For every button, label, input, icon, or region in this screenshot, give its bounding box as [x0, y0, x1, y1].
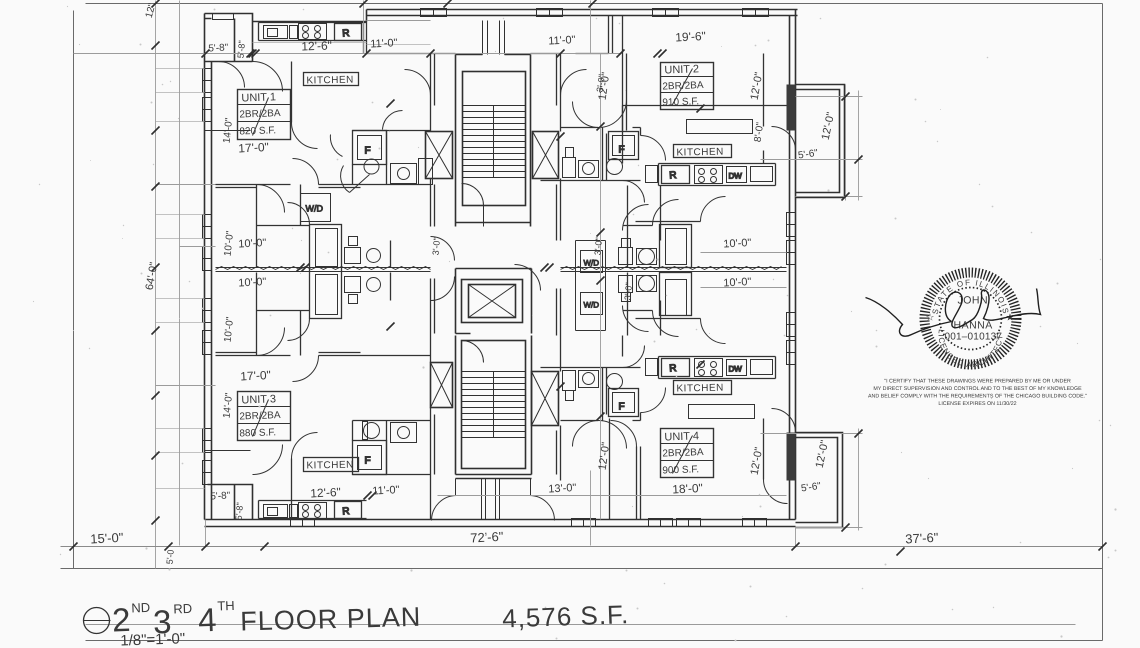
svg-text:3'-0": 3'-0": [593, 237, 605, 256]
demising zigzag left: [216, 268, 431, 272]
svg-text:11'-0": 11'-0": [372, 484, 400, 497]
door arc entry right: [530, 496, 555, 521]
svg-text:11'-0": 11'-0": [370, 37, 398, 50]
kitchen4 label: [674, 381, 732, 395]
shaft X mid-left: [431, 363, 453, 408]
door arc closet lower: [288, 319, 310, 341]
signature main loops: [945, 289, 1040, 328]
window midlines: [203, 9, 796, 527]
svg-text:KITCHEN: KITCHEN: [306, 75, 354, 87]
svg-text:4: 4: [197, 601, 217, 639]
door arc right bedroom upper: [701, 197, 726, 222]
dim guide vertical x590: [590, 1, 592, 546]
bath top-left tub: [419, 159, 433, 185]
window: bottom wall w3: [649, 519, 673, 527]
door arc unit1 bedroom: [292, 123, 318, 149]
dim guide top corridor ticks line y20: [367, 20, 431, 22]
window: left wall w3: [203, 215, 212, 239]
window: right wall w2: [787, 241, 796, 265]
bath cluster bottom-center walls: [541, 368, 641, 421]
wall: right thick pier top: [787, 85, 796, 131]
balcony: lower right: [796, 433, 843, 528]
bath cluster bottom-left F closet: [353, 441, 387, 475]
door arc balcony top: [772, 127, 796, 151]
wall: building bottom (double): [205, 520, 796, 527]
elevator cab inner X: [469, 285, 516, 318]
dim guide vertical x600 full: [600, 54, 602, 520]
wall right unit kitchen top: [623, 106, 659, 186]
kitchen3 label: [304, 458, 359, 472]
shaft X mid-right: [532, 372, 559, 426]
kitchen2 label: [674, 145, 732, 159]
wall right units x660 vertical: [660, 186, 662, 336]
dim guide vertical x860: [858, 91, 860, 531]
svg-text:UNIT 3: UNIT 3: [241, 393, 276, 406]
kitchen1 fridge R: [335, 24, 362, 41]
wall right unit4 y300: [623, 310, 653, 312]
door arc stair top core: [462, 184, 484, 227]
window: right wall w4: [787, 341, 796, 365]
unit4 text: [662, 430, 704, 476]
wall unit1 hall y130: [205, 130, 251, 132]
svg-text:UNIT 1: UNIT 1: [241, 91, 276, 104]
svg-text:KITCHEN: KITCHEN: [676, 147, 724, 159]
bath cluster top-center walls: [541, 128, 641, 181]
sheet right border: [1102, 4, 1104, 641]
svg-text:KITCHEN: KITCHEN: [306, 460, 354, 472]
window: left wall w8: [203, 461, 212, 485]
seal curved text top: [931, 278, 1011, 369]
kitchen4 counter band right: [659, 357, 776, 379]
svg-text:☆: ☆: [926, 313, 935, 324]
svg-text:2BR/2BA: 2BR/2BA: [239, 108, 281, 120]
svg-text:900 S.F.: 900 S.F.: [662, 464, 699, 476]
kitchen4 sink: [751, 360, 773, 375]
sheet top border: [86, 3, 1103, 5]
svg-text:4,576 S.F.: 4,576 S.F.: [502, 599, 630, 633]
door arc bottom-left bedroom: [253, 445, 283, 475]
wall right unit partition x622: [623, 16, 627, 131]
bath cluster top-left toilet: [341, 159, 379, 193]
wall: right thick pier bottom: [787, 433, 796, 481]
kitchen1 label: [304, 73, 359, 87]
svg-text:MY DIRECT SUPERVISION AND CONT: MY DIRECT SUPERVISION AND CONTROL AND TO…: [873, 386, 1082, 392]
svg-text:"I CERTIFY THAT THESE DRAWINGS: "I CERTIFY THAT THESE DRAWINGS WERE PREP…: [884, 379, 1071, 385]
svg-text:15'-0": 15'-0": [90, 530, 124, 547]
door arc unit3 bedroom: [292, 433, 318, 459]
kitchen1 trash box: [290, 26, 298, 39]
svg-text:11'-0": 11'-0": [548, 34, 576, 47]
door arc bath top-left entry: [330, 110, 402, 156]
stair door top corridor: [483, 21, 505, 55]
window: left wall w7: [203, 429, 212, 453]
window: bottom wall w4: [677, 519, 701, 527]
door arc right unit2 entry: [623, 205, 649, 231]
svg-text:10'-0": 10'-0": [238, 237, 267, 250]
door arc unit4 balcony corner: [764, 480, 788, 504]
stair core top: inner cage: [463, 72, 526, 206]
svg-text:F: F: [365, 456, 371, 467]
door arc corridor top right: [561, 70, 587, 96]
kitchen4 range burners: [695, 359, 723, 377]
wall left unit bedroom y184: [216, 185, 431, 188]
svg-text:001–010137: 001–010137: [945, 332, 1003, 343]
tick marks x155 column: [152, 42, 160, 525]
window: left wall w2: [203, 98, 212, 122]
unit2 text: [662, 63, 704, 108]
kitchen1 counter band: [259, 23, 367, 41]
bath top-center toilet tank: [563, 148, 576, 178]
door arc right bedroom lower: [701, 319, 726, 344]
title text floor plan: [111, 598, 629, 648]
svg-text:5'-8": 5'-8": [208, 42, 229, 54]
svg-text:RD: RD: [173, 601, 192, 617]
demising zigzag left texture: [216, 267, 431, 270]
unit4 label box: [661, 429, 714, 478]
svg-text:18'-0": 18'-0": [672, 481, 703, 497]
door arc left unit hall: [293, 159, 319, 185]
bath bottom-center door arcs: [573, 346, 666, 449]
window: corner room top: [213, 14, 234, 20]
bath bottom-center sink counter: [579, 371, 599, 388]
dim guide vertical x179: [179, 1, 181, 546]
wall bath top-left: [353, 131, 431, 185]
unit2 label box: [661, 63, 714, 110]
window: top wall w1: [421, 9, 447, 17]
stair center rail bottom: [493, 372, 495, 438]
washer dryer center upper: [581, 251, 603, 273]
door arc corner room: [219, 62, 245, 88]
seal dotted inner circle: [940, 288, 1002, 350]
wall right bedroom y318: [636, 318, 701, 320]
wall bath bottom-left: [353, 421, 431, 475]
wall unit3 hall y450: [205, 450, 251, 452]
wall: building right (double): [790, 10, 796, 520]
svg-text:5'-8": 5'-8": [236, 40, 248, 59]
washer dryer left unit: [301, 194, 331, 222]
dim guide vertical x155: [155, 1, 157, 569]
window: top wall w4: [743, 9, 769, 17]
svg-text:880 S.F.: 880 S.F.: [239, 427, 276, 439]
unit1 text: [239, 91, 281, 137]
svg-text:UNIT 2: UNIT 2: [664, 63, 699, 76]
lobby arcs center left: [431, 237, 455, 301]
bath bottom-left sink: [391, 423, 417, 443]
kitchen3 sink inner: [268, 508, 278, 516]
sheet left border: [73, 11, 75, 569]
wall unit2 bedroom x763: [763, 54, 765, 164]
kitchen4 island: [689, 405, 755, 419]
guide lines left margin: [156, 69, 205, 489]
svg-text:17'-0": 17'-0": [240, 368, 271, 384]
wall unit3 bedroom partition: [291, 459, 293, 520]
bath bottom-center toilet bowl: [607, 374, 623, 390]
kitchen2 cabinet: [646, 166, 658, 183]
svg-text:R: R: [342, 28, 350, 39]
wall right unit2 partition low: [623, 105, 787, 107]
stair treads bottom: [462, 372, 526, 438]
kitchen1 sink inner: [268, 29, 278, 37]
kitchen1 range burners: [299, 24, 327, 40]
door arc left bedroom mid lower: [257, 328, 285, 356]
kitchen2 fridge R: [662, 166, 690, 184]
wall top corridor y53: [367, 53, 609, 55]
svg-text:DW: DW: [729, 172, 743, 181]
svg-text:17'-0": 17'-0": [238, 140, 269, 156]
kitchen3 counter band: [259, 501, 367, 519]
wall unit1 bedroom partition: [291, 62, 293, 123]
wall left unit bedroom y355: [216, 353, 431, 356]
svg-text:12'-6": 12'-6": [310, 485, 341, 501]
svg-text:910 S.F.: 910 S.F.: [662, 96, 699, 108]
bath top-center door arcs: [573, 100, 666, 203]
svg-text:TH: TH: [217, 598, 235, 614]
dim guide y495 bottom units: [438, 495, 787, 497]
svg-text:2BR/2BA: 2BR/2BA: [662, 80, 704, 92]
wall right unit4 partition: [610, 419, 641, 520]
title drawing number circle: [84, 608, 110, 634]
wall left closet row upper: [257, 185, 310, 268]
window: right wall w1: [787, 213, 796, 237]
wall: top-left kitchen bump top: [253, 10, 367, 22]
kitchen1 sink cabinet: [264, 26, 288, 39]
tick marks y546 row: [70, 543, 1107, 551]
wall right unit partition x608: [609, 16, 613, 54]
svg-text:1/8"=1'-0": 1/8"=1'-0": [120, 630, 185, 648]
title underline: [86, 624, 1076, 626]
dim guide vertical x363 top: [363, 1, 365, 54]
elevator core walls: [456, 269, 532, 334]
wall right units x627 vertical: [627, 186, 629, 336]
bath bottom-center toilet tank: [563, 371, 576, 401]
bath bottom-center F closet: [609, 389, 639, 417]
window: bottom wall w1: [291, 519, 315, 527]
demising zigzag right: [561, 268, 787, 272]
door arc balcony bottom: [772, 409, 796, 433]
guide lines top margin: [253, 43, 431, 45]
svg-text:3'-0": 3'-0": [623, 282, 635, 301]
svg-text:12'-6": 12'-6": [301, 38, 332, 53]
fixtures right mid lower row: [619, 276, 657, 302]
wall corridor left lower: [431, 279, 435, 520]
kitchen2 sink: [751, 167, 773, 182]
shaft X top-right: [533, 132, 559, 179]
balcony: upper right: [796, 85, 845, 198]
sheet line above title: [61, 568, 1103, 570]
entry vestibule below stair: [456, 479, 531, 520]
dim guide horizontal y246 left: [180, 246, 216, 248]
tick marks balcony right: [842, 93, 863, 532]
door arc top-left bedroom1: [253, 62, 283, 92]
wall: building top (double): [367, 10, 798, 16]
signature tail left: [866, 298, 952, 337]
svg-text:F: F: [619, 402, 625, 413]
svg-text:19'-6": 19'-6": [675, 29, 706, 45]
svg-text:2BR/2BA: 2BR/2BA: [662, 447, 704, 459]
svg-text:5'-8": 5'-8": [210, 490, 231, 502]
bath top-center F closet: [609, 132, 639, 160]
certification text: [868, 379, 1087, 408]
svg-text:R: R: [342, 506, 350, 517]
svg-text:5'-0: 5'-0: [165, 549, 176, 565]
closet column right upper: [660, 225, 692, 268]
svg-text:AND BELIEF COMPLY WITH THE REQ: AND BELIEF COMPLY WITH THE REQUIREMENTS …: [868, 394, 1087, 400]
kitchen2 range burners: [695, 166, 723, 184]
svg-text:5'-8": 5'-8": [234, 502, 246, 521]
wall kitchen1 right edge: [364, 22, 367, 54]
wall right unit4 kitchen: [623, 336, 659, 379]
stair treads top: [463, 106, 526, 178]
svg-text:UNIT 4: UNIT 4: [664, 430, 699, 443]
svg-text:37'-6": 37'-6": [905, 530, 939, 547]
kitchen4 fridge R: [662, 359, 690, 377]
svg-text:R: R: [669, 170, 677, 181]
closet column right lower: [660, 273, 692, 316]
kitchen2 counter band right: [659, 164, 776, 186]
tick marks top border: [152, 0, 597, 8]
svg-text:F: F: [365, 146, 371, 157]
dim guide horizontal y433 balcony: [761, 433, 863, 435]
svg-text:DW: DW: [729, 365, 743, 374]
bath cluster top-left F closet: [353, 131, 387, 165]
wall: top-left corner room: [205, 14, 253, 62]
svg-text:ND: ND: [131, 600, 150, 616]
wall corridor left upper: [431, 54, 435, 227]
dim guide horizontal y159 balcony: [761, 159, 863, 161]
tick marks center vertical x600: [597, 123, 605, 421]
kitchen4 DW: [727, 360, 747, 376]
svg-text:KITCHEN: KITCHEN: [676, 383, 724, 395]
wall center laundry: [576, 241, 606, 331]
svg-text:W/D: W/D: [584, 301, 600, 310]
tick marks double hashes: [247, 50, 905, 556]
window: bottom wall w5: [743, 519, 767, 527]
tick marks y53 row: [202, 50, 625, 58]
svg-text:10'-0": 10'-0": [723, 237, 752, 250]
wall right bedroom y221: [636, 221, 701, 223]
door arc unit3 bedroom2: [515, 265, 541, 291]
dim guide vertical x795 below: [795, 528, 797, 547]
svg-text:10'-0": 10'-0": [723, 276, 752, 289]
bath top-center toilet bowl: [607, 159, 623, 175]
kitchen2 island: [687, 120, 753, 134]
stair core top: walls: [456, 55, 531, 227]
door arc corridor top left: [405, 70, 431, 96]
door arc unit4 bedroom: [653, 311, 679, 337]
wall unit4 bedroom x763: [763, 419, 765, 480]
wall: bottom-left corner room: [208, 485, 253, 520]
svg-text:820 S.F.: 820 S.F.: [239, 125, 276, 137]
window: left wall w5: [203, 299, 212, 323]
door arc left bedroom mid upper: [257, 185, 285, 213]
dim guide horizontal y184 ext: [156, 184, 216, 186]
seal hatched outer ring: [925, 273, 1017, 365]
kitchen3 range burners: [299, 503, 327, 519]
svg-text:FLOOR PLAN: FLOOR PLAN: [240, 602, 422, 637]
sheet bottom border: [86, 640, 1103, 642]
unit3 text: [239, 393, 281, 439]
stair core bottom: walls: [456, 336, 532, 479]
door arc unit2 bedroom: [653, 200, 679, 226]
window: right wall w3: [787, 313, 796, 337]
door arc closet upper: [288, 203, 310, 225]
bath top-left sink counter: [391, 164, 417, 184]
wall left closet row lower: [257, 273, 310, 356]
elevator cab: [462, 280, 523, 323]
dim guide y287 right: [701, 287, 787, 289]
wall: building left (double): [205, 14, 212, 520]
kitchen3 sink cabinet: [264, 505, 288, 518]
dim guide vertical x205 below: [205, 520, 207, 547]
window: left wall w4: [203, 247, 212, 271]
bath top-center sink counter: [579, 161, 599, 178]
svg-text:72'-6": 72'-6": [470, 529, 504, 546]
shaft X top-left: [426, 132, 453, 179]
door arc right unit4 entry: [623, 306, 649, 332]
wall corridor right lower: [557, 289, 561, 481]
dim guide vertical x845 top: [845, 85, 847, 201]
window: top wall w2: [537, 9, 563, 17]
svg-text:LICENSE EXPIRES ON 11/30/22: LICENSE EXPIRES ON 11/30/22: [938, 401, 1016, 407]
svg-text:W/D: W/D: [584, 259, 600, 268]
stair center rail top: [493, 106, 495, 178]
svg-text:R: R: [669, 363, 677, 374]
closet column back-to-back: [310, 225, 342, 319]
dim line bottom y546: [61, 546, 1103, 548]
stair door arc bottom core: [462, 341, 484, 363]
fixtures right mid upper row: [619, 239, 657, 265]
tick marks misc interior: [387, 100, 705, 391]
window: left wall w1: [203, 69, 212, 93]
door arc left unit hall2: [293, 356, 319, 382]
svg-text:10'-0": 10'-0": [238, 276, 267, 289]
kitchen4 cabinet: [646, 359, 658, 376]
dim guide horizontal y53: [74, 53, 621, 55]
svg-text:2BR/2BA: 2BR/2BA: [239, 410, 281, 422]
wall corridor right upper: [557, 54, 561, 241]
window: left wall w6: [203, 331, 212, 355]
svg-text:HANNA: HANNA: [954, 320, 993, 332]
window: top wall w3: [653, 9, 679, 17]
demising zigzag right texture: [561, 267, 782, 270]
kitchen3 fridge R: [335, 502, 362, 519]
unit1 label box: [238, 90, 291, 140]
dim guide horizontal y196 balcony: [796, 196, 863, 198]
bath sink unit1 corridor: [345, 237, 381, 264]
door arc unit4 partition: [611, 421, 637, 447]
bath bottom-left toilet: [363, 422, 380, 440]
title circle bar: [84, 620, 111, 622]
washer dryer center lower: [581, 293, 603, 315]
svg-text:W/D: W/D: [306, 204, 324, 214]
svg-text:3'-0": 3'-0": [431, 237, 443, 256]
dim guide horizontal y385 left: [156, 385, 216, 387]
dim guide horizontal y527 balcony: [796, 527, 863, 529]
kitchen2 DW: [727, 167, 747, 183]
kitchen3 trash box: [290, 505, 298, 518]
door arc entry left: [432, 496, 457, 521]
dim guide horizontal y96 balcony: [796, 96, 863, 98]
wall bath x362: [390, 241, 392, 301]
svg-text:13'-0": 13'-0": [548, 482, 577, 495]
unit3 label box: [238, 392, 291, 441]
bath sink unit3 corridor: [345, 277, 381, 304]
stair core bottom: inner cage: [462, 341, 526, 469]
svg-text:F: F: [619, 145, 625, 156]
window: bottom wall w2: [572, 519, 596, 527]
dim guide y252 right: [701, 252, 787, 254]
wall right unit2 y225: [623, 225, 653, 227]
